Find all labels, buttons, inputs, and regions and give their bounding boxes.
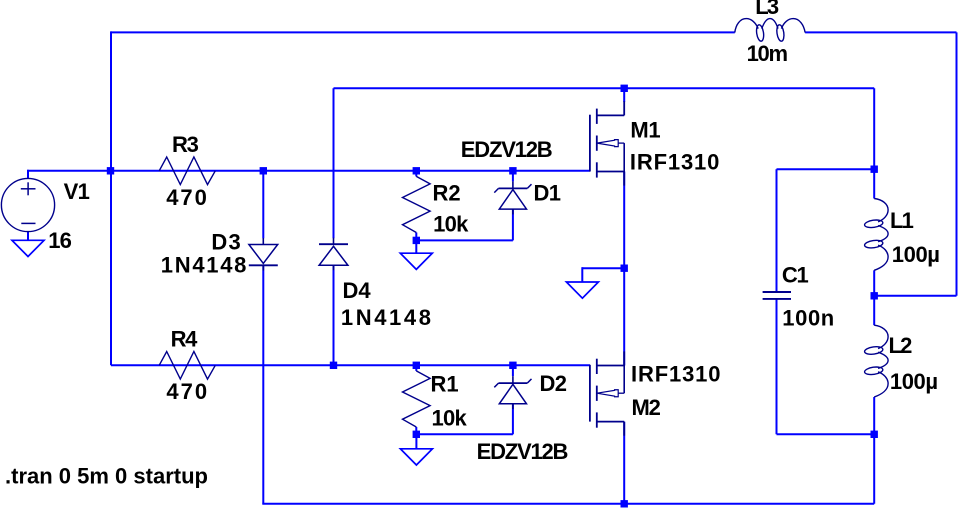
svg-text:.tran 0 5m 0 startup: .tran 0 5m 0 startup [5, 463, 208, 488]
wire C1 top link [777, 168, 875, 170]
svg-text:470: 470 [166, 379, 209, 404]
wire D3 cathode down to bottom rail [262, 265, 264, 504]
junction R1 bottom [413, 431, 420, 438]
junction source node ground tap [621, 265, 628, 272]
svg-text:1N4148: 1N4148 [161, 252, 248, 277]
diode D3 1N4148 [249, 245, 278, 264]
svg-text:R4: R4 [171, 326, 199, 351]
junction D2 / R4 rail [509, 362, 516, 369]
resistor R1 [403, 371, 431, 427]
svg-text:R1: R1 [431, 372, 459, 397]
inductor L3 [735, 19, 805, 33]
svg-text:100µ: 100µ [890, 369, 938, 394]
svg-text:C1: C1 [782, 262, 809, 287]
wire D4 anode down to R4 rail [333, 265, 335, 365]
wire C1 top stub [776, 169, 778, 291]
wire C1 bottom stub [776, 299, 778, 434]
resistor R3 [159, 157, 215, 185]
junction R2 bottom [413, 237, 420, 244]
inductor L1 [874, 199, 888, 271]
capacitor C1 [763, 291, 791, 293]
junction D1 / gate rail [509, 167, 516, 174]
wire R4 rail y=365 [111, 364, 590, 366]
junction C1 bottom / L2 bottom [871, 431, 878, 438]
junction R2 / gate rail [413, 167, 420, 174]
ground below R2 [415, 240, 417, 253]
resistor R2 [403, 176, 431, 232]
junction D3 / gate rail [260, 167, 267, 174]
svg-text:100µ: 100µ [892, 242, 940, 267]
svg-text:EDZV12B: EDZV12B [461, 137, 552, 162]
junction R1 / R4 rail [413, 362, 420, 369]
wire right rail to L1-L2 midpoint [874, 295, 957, 297]
wire D1 anode stub [512, 209, 514, 240]
wire right rail down [956, 32, 958, 295]
wire mid ground link [582, 267, 624, 269]
svg-text:10k: 10k [432, 405, 468, 430]
wire D2 cathode stub [512, 365, 514, 376]
junction V1 / gate rail [107, 167, 114, 174]
svg-text:IRF1310: IRF1310 [631, 362, 721, 387]
wire right branch down from drain rail [873, 88, 875, 198]
svg-text:1N4148: 1N4148 [341, 305, 434, 330]
svg-text:D1: D1 [534, 180, 561, 205]
svg-text:V1: V1 [64, 179, 90, 204]
ground below V1 [12, 240, 44, 256]
wire L1 to L2 [873, 270, 875, 325]
wire M1 drain stub [623, 88, 625, 102]
wire D1 cathode stub [512, 171, 514, 182]
junction L1-L2 midpoint [871, 292, 878, 299]
wire R2 to D1 anode link [416, 239, 513, 241]
zener diode D2 EDZV12B [499, 382, 528, 384]
diode D4 1N4148 [319, 243, 348, 245]
wire bottom rail [262, 503, 874, 505]
svg-text:L1: L1 [890, 208, 914, 233]
wire L2 to bottom rail [873, 397, 875, 504]
wire D2 anode stub [512, 404, 514, 435]
ground at M1-M2 source node [566, 282, 598, 298]
svg-text:L3: L3 [755, 0, 779, 19]
junction M1 drain / drain rail [621, 85, 628, 92]
ground below R1 [415, 434, 417, 449]
svg-text:R3: R3 [172, 132, 199, 157]
svg-text:M2: M2 [632, 395, 661, 420]
svg-text:470: 470 [166, 185, 209, 210]
svg-text:100n: 100n [782, 306, 835, 331]
svg-text:L2: L2 [889, 333, 913, 358]
svg-text:M1: M1 [630, 118, 660, 143]
wire V1 plus stub [27, 170, 29, 179]
wire top rail left (V+ to L3) [111, 31, 735, 33]
wire C1 bottom link [777, 433, 875, 435]
junction M2 drain / bottom rail [621, 500, 628, 507]
svg-text:EDZV12B: EDZV12B [477, 439, 568, 464]
svg-text:D3: D3 [211, 230, 242, 255]
wire drain rail y=88 [334, 87, 875, 89]
wire M1 source to M2 source [623, 172, 625, 366]
zener diode D1 EDZV12B [499, 187, 528, 189]
wire R2 bottom stub [415, 233, 417, 241]
wire main gate rail y=171 [27, 170, 590, 172]
junction D4 / R4 rail [330, 362, 337, 369]
voltage source V1 [1, 178, 54, 231]
inductor L2 [874, 325, 888, 397]
wire V1 minus stub [27, 232, 29, 241]
wire R1 top stub [415, 365, 417, 371]
resistor R4 [159, 352, 215, 380]
svg-text:D4: D4 [343, 278, 372, 303]
svg-text:IRF1310: IRF1310 [630, 149, 720, 174]
nmos transistor M1 IRF1310 [589, 115, 591, 172]
wire D4 cathode up to drain rail [333, 88, 335, 238]
svg-text:16: 16 [48, 228, 71, 253]
svg-text:D2: D2 [540, 371, 567, 396]
wire left vertical (V1 node down to R4 rail) [110, 31, 112, 365]
svg-text:10k: 10k [433, 212, 469, 237]
wire R2 top stub [415, 171, 417, 177]
svg-text:R2: R2 [433, 180, 461, 205]
svg-text:10m: 10m [747, 41, 788, 66]
nmos transistor M2 IRF1310 (mirrored) [589, 365, 591, 422]
wire D3 anode up to rail [262, 171, 264, 238]
wire M2 drain to bottom rail [623, 422, 625, 504]
wire R1 bottom stub [415, 427, 417, 434]
wire R1 to D2 anode link [416, 433, 513, 435]
wire top rail right (L3 to right side) [805, 31, 956, 33]
junction C1 top / L1 top [871, 166, 878, 173]
